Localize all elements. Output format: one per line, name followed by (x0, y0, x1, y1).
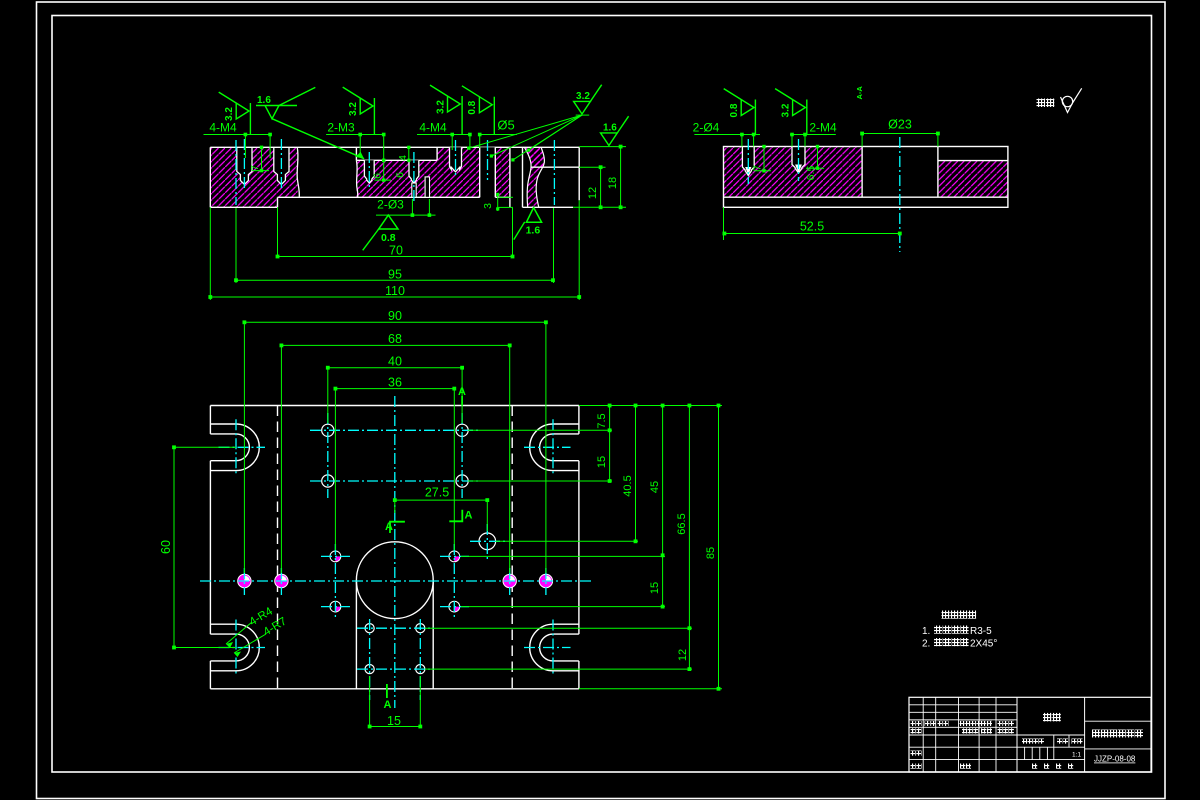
svg-text:0.8: 0.8 (467, 100, 478, 114)
view1 depth dim 6 pocket hole a (382, 159, 385, 162)
surface finish note (rest) top right (1037, 99, 1046, 108)
view1 hole M3 blind at 455.5 (450, 147, 462, 172)
view2 outline rect (724, 147, 1008, 208)
svg-text:12: 12 (587, 187, 599, 199)
title block middle rows (1017, 734, 1085, 736)
plan right side ext lines (579, 405, 722, 407)
view1 outline: left edge (209, 147, 211, 207)
svg-text:R3-5: R3-5 (970, 626, 992, 637)
view1 centerline pocket hole a (368, 152, 370, 188)
title block row2 texts (911, 728, 916, 733)
plan dim 68 (280, 345, 282, 573)
view1 pocket left edge (355, 147, 357, 160)
plan main vertical centerline (394, 396, 396, 708)
view1 surface symbol 0.8 (462, 86, 494, 135)
svg-text:3.2: 3.2 (348, 102, 359, 116)
view1 outline: bottom left deep (210, 206, 277, 208)
plan slot centerlines (219, 446, 266, 448)
view2 hole Ø23 left edge (861, 147, 863, 198)
svg-text:15: 15 (649, 582, 661, 594)
svg-text:2X45°: 2X45° (970, 639, 997, 650)
view1 hatched region left block (210, 147, 297, 207)
view1 dim 70 (277, 207, 279, 258)
view1 dim 3 step (497, 193, 499, 211)
view2 hatched right block (938, 161, 1008, 198)
svg-text:1.6: 1.6 (603, 123, 617, 134)
svg-text:1.6: 1.6 (526, 225, 541, 237)
title block main verticals (1016, 697, 1018, 772)
view1 centerline right slot (553, 140, 555, 205)
svg-text:27.5: 27.5 (425, 486, 449, 500)
svg-text:15: 15 (596, 456, 608, 468)
view1 surface symbol 3.2 over 2-M3 (343, 87, 375, 134)
plan top row holes 4-M4 (322, 424, 334, 436)
svg-text:3.2: 3.2 (780, 103, 791, 117)
plan U-slot bottom-left (210, 623, 236, 625)
svg-text:1:1: 1:1 (1072, 752, 1081, 759)
view1 outline: right edge (578, 147, 580, 200)
view2 hole 2-Ø4 (742, 147, 754, 176)
plan dim 15 bottom (369, 676, 371, 727)
plan dim 7.5 and 15 (609, 406, 611, 431)
svg-text:3.2: 3.2 (576, 91, 590, 102)
view2 surface symbol 0.8 (724, 89, 756, 135)
svg-text:12: 12 (677, 649, 689, 661)
view1 surface symbol 3.2 top right with leader fan (574, 85, 602, 114)
view1 hole 4-M4 left a (counterbored) (237, 147, 252, 184)
plan outline right edge (interrupted by slots) (578, 406, 580, 434)
view1 depth dim 4 pocket (408, 147, 410, 160)
view1 surface symbol 0.8 below (on 2-Ø3 line) (379, 215, 398, 229)
view1 centerline left slot (235, 140, 237, 205)
plan U-slot bottom-right (553, 623, 579, 625)
plan U-slot top-left (210, 423, 236, 425)
view1 internal edge y=167.2 right end (531, 166, 580, 168)
plan centerline pin holes (magenta filled) (238, 574, 251, 587)
svg-text:6: 6 (372, 173, 384, 179)
view1 hatched region mid-right (437, 147, 480, 197)
view2 dim 52.5 (723, 207, 725, 240)
view1 hatched broken-section strip with wavy edges (524, 147, 544, 207)
view1 hole through Ø5 (480, 147, 496, 197)
svg-text:0.8: 0.8 (729, 103, 740, 117)
view2 hole Ø23 right edge (937, 147, 939, 198)
svg-text:0.8: 0.8 (381, 232, 396, 244)
plan U-slot top-right (553, 423, 579, 425)
svg-text:40.5: 40.5 (622, 475, 634, 496)
svg-text:45: 45 (649, 481, 661, 493)
view1 pocket right edge (436, 147, 438, 160)
plan dim 40.5 (635, 406, 637, 542)
plan M3 holes centerlines (334, 544, 336, 619)
svg-text:4-M4: 4-M4 (209, 121, 237, 135)
view2 internal bottom strip line (724, 196, 1008, 198)
svg-text:3: 3 (482, 203, 494, 209)
view1 outline: step at x=277.5 (277, 197, 279, 207)
title block company name (1043, 713, 1052, 722)
plan hole Ø5 (479, 533, 496, 550)
view2 internal step line right (938, 160, 1008, 162)
view2 centerline hole 2-M4 (798, 139, 800, 181)
svg-text:68: 68 (388, 332, 402, 346)
title block middle row labels (1022, 739, 1027, 744)
plan channel holes centerlines (369, 619, 371, 700)
view2 centerline hole 2-Ø4 (747, 139, 749, 184)
view1 outline: bottom under hatch strip (495, 196, 510, 198)
svg-text:1.6: 1.6 (257, 95, 271, 106)
plan dim 90 (243, 322, 245, 573)
title block middle sub verticals (1053, 735, 1055, 760)
plan hidden dashed line left (277, 406, 279, 689)
view1 pocket floor y=160.3 (356, 159, 437, 161)
view2 centerline Ø23 (899, 137, 901, 252)
svg-text:40: 40 (388, 355, 402, 369)
svg-text:7.5: 7.5 (596, 413, 608, 428)
view1 dim 12 right side (579, 166, 605, 168)
svg-text:66.5: 66.5 (676, 513, 688, 534)
view1 hole 2-M3-ish in pocket left (364, 160, 374, 183)
svg-text:2.: 2. (922, 639, 930, 650)
svg-text:A: A (384, 699, 392, 711)
svg-text:95: 95 (388, 268, 402, 282)
svg-text:2-Ø3: 2-Ø3 (377, 198, 404, 212)
svg-text:85: 85 (705, 547, 717, 559)
view1 surface symbol 3.2 far left (219, 92, 251, 134)
plan outline top edge (210, 405, 579, 407)
view1 surface symbol 3.2 over 4-M4 right (430, 85, 462, 134)
view1 thin hole below pocket a (412, 183, 416, 197)
plan M3 holes quarter magenta (330, 551, 341, 562)
view1 thin hole below pocket b (425, 177, 429, 197)
view1 hole 4-M4 left b (274, 147, 289, 184)
plan outline bottom edge (210, 688, 579, 690)
plan Ø5 hole centerlines (470, 540, 505, 542)
svg-text:3.2: 3.2 (435, 100, 446, 114)
view1 hatched strip between holes (495, 147, 510, 197)
plan channel tangent lines (355, 580, 357, 689)
view1 hatched region pocket floor (356, 160, 437, 197)
title block outer rect (909, 697, 1151, 772)
svg-text:4: 4 (397, 155, 409, 161)
view1 depth dim 7 at left hole (261, 147, 263, 170)
view1 hatch upper-right of wavy strip (524, 147, 544, 167)
view1 surface symbol 1.6 below wavy strip (526, 208, 541, 223)
svg-text:2-M4: 2-M4 (809, 121, 837, 135)
view2 hole 2-M4 (792, 147, 805, 174)
title block right column rows (1085, 720, 1151, 722)
svg-text:A: A (385, 521, 393, 533)
view2 dim Ø23 (862, 133, 938, 135)
svg-text:2-M3: 2-M3 (327, 121, 355, 135)
view1 wavy break edges (524, 147, 531, 207)
view1 hole through at 516 (509, 147, 511, 207)
view1 outline: bottom right deep (523, 206, 574, 208)
title block row3/4 texts (911, 751, 916, 756)
title block sheet row (1032, 764, 1037, 769)
title block left grid rows (909, 704, 1017, 706)
svg-text:A-A: A-A (855, 86, 864, 100)
svg-text:A: A (465, 510, 473, 522)
view1 centerline pocket hole b (413, 152, 415, 202)
view1 centerline hole a (243, 139, 245, 191)
title block left grid verticals (922, 697, 924, 772)
view1 dim 110 (209, 207, 211, 300)
svg-text:6: 6 (394, 172, 406, 178)
plan dim 85 (718, 406, 720, 689)
plan top holes centerlines (327, 413, 329, 498)
view2 hatched left block (724, 147, 863, 198)
view1 centerline M3 hole (455, 140, 457, 178)
view1 outline: bottom middle (278, 196, 480, 198)
svg-text:60: 60 (159, 540, 173, 554)
view1 dim 18 right side (579, 146, 626, 148)
plan dim 36 (334, 389, 336, 550)
view2 depth dim 6.5 (817, 147, 819, 169)
view1 hatch boundary wavy x=297.6 (297, 147, 299, 197)
plan dim 40 (327, 368, 329, 423)
view1 outline: top edge (210, 146, 579, 148)
svg-text:7: 7 (752, 165, 764, 171)
svg-text:4-M4: 4-M4 (419, 121, 447, 135)
svg-text:3.2: 3.2 (224, 107, 235, 121)
view1 dim 95 (236, 279, 553, 281)
plan dim 60 left (174, 446, 236, 448)
plan dim 45 and 15 (662, 406, 664, 556)
view2 depth dim 7 (763, 147, 765, 171)
technical requirements heading (942, 611, 950, 619)
svg-text:1.: 1. (922, 626, 930, 637)
plan main horizontal centerline (200, 580, 591, 582)
svg-text:90: 90 (388, 309, 402, 323)
svg-text:18: 18 (607, 177, 619, 189)
plan central bore Ø23 (356, 542, 433, 619)
plan hidden dashed line right (511, 406, 513, 689)
svg-text:7: 7 (249, 165, 261, 171)
svg-text:36: 36 (388, 376, 402, 390)
plan outline left edge (interrupted by slots) (209, 406, 211, 434)
svg-text:110: 110 (385, 284, 405, 298)
title block part name (1092, 730, 1100, 738)
svg-text:15: 15 (387, 714, 401, 728)
svg-text:JJZP-08-08: JJZP-08-08 (1094, 755, 1136, 764)
plan channel holes 2-Ø3 x4 (365, 624, 374, 633)
svg-text:Ø5: Ø5 (497, 118, 514, 133)
view1 surface symbol 1.6 top right corner (601, 116, 629, 145)
svg-text:70: 70 (389, 244, 403, 258)
plan dim 66.5 and 12 (688, 406, 690, 629)
title block texts row small (911, 721, 916, 726)
svg-text:Ø23: Ø23 (888, 118, 912, 132)
view2 surface symbol 3.2 (775, 89, 807, 135)
view1 centerline hole b (280, 139, 282, 191)
view1 centerline Ø5 hole (487, 140, 489, 180)
view1 hole in pocket right (409, 160, 419, 183)
svg-text:2-Ø4: 2-Ø4 (693, 121, 720, 135)
svg-text:52.5: 52.5 (800, 220, 824, 234)
plan dim 27.5 (394, 500, 396, 513)
plan pin holes short vertical centerlines (243, 568, 245, 595)
